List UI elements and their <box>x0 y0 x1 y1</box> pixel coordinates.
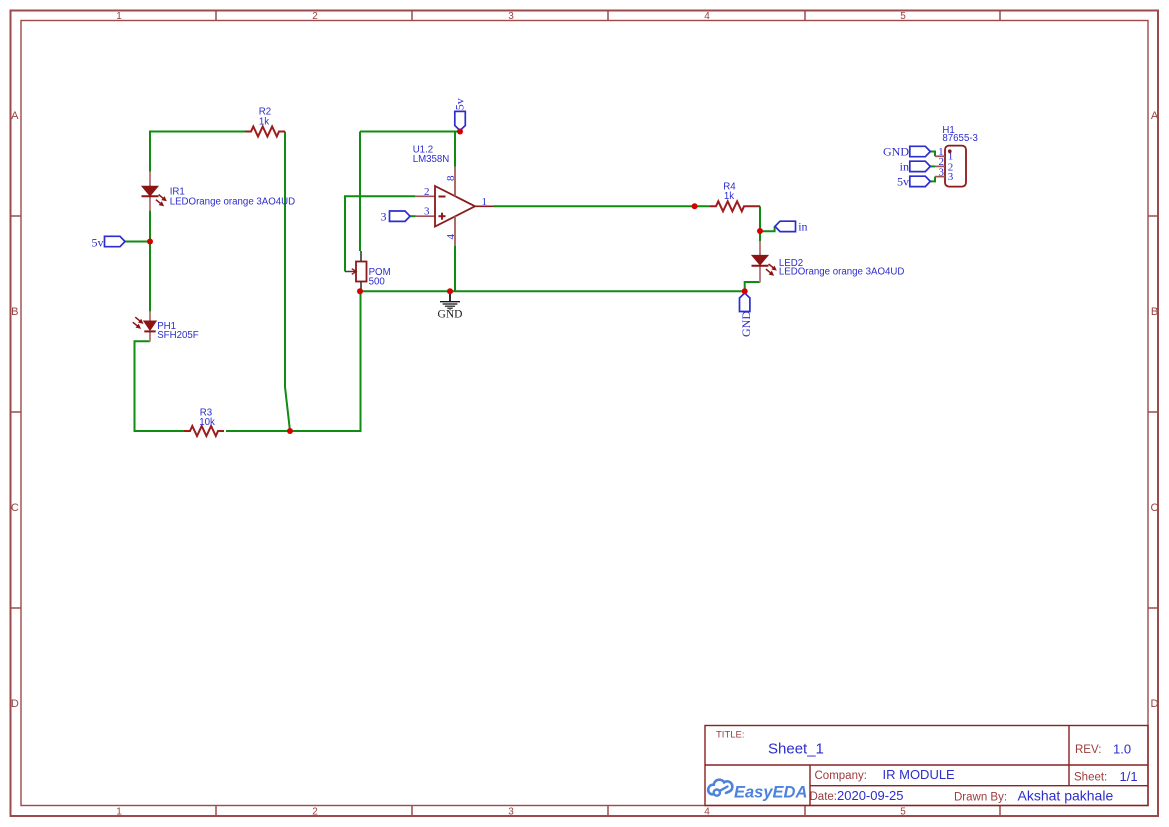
wire output to R4 <box>494 205 710 207</box>
node R3-R2 <box>287 428 293 434</box>
wire H1 pin1 <box>930 152 935 157</box>
svg-text:in: in <box>798 219 807 233</box>
svg-text:C: C <box>1151 502 1159 514</box>
svg-text:Sheet_1: Sheet_1 <box>768 741 824 758</box>
node in <box>757 228 763 234</box>
svg-text:LM358N: LM358N <box>413 154 450 165</box>
svg-text:IR MODULE: IR MODULE <box>883 767 956 782</box>
svg-text:87655-3: 87655-3 <box>942 133 978 144</box>
svg-text:3: 3 <box>508 11 514 22</box>
svg-text:1k: 1k <box>724 191 734 202</box>
svg-text:1.0: 1.0 <box>1113 742 1131 757</box>
svg-text:2: 2 <box>312 11 318 22</box>
wire 5v to pin8 <box>454 132 456 167</box>
svg-text:1: 1 <box>116 11 122 22</box>
wire 5v flag stub <box>125 241 150 243</box>
svg-text:B: B <box>11 306 18 318</box>
wire <box>125 132 935 432</box>
svg-text:GND: GND <box>438 309 463 321</box>
svg-text:4: 4 <box>704 11 710 22</box>
svg-text:3: 3 <box>948 171 954 183</box>
svg-text:GND: GND <box>739 311 753 337</box>
wire feedback pin2 to POM wiper <box>345 196 415 271</box>
svg-text:Akshat pakhale: Akshat pakhale <box>1018 788 1114 804</box>
svg-text:in: in <box>900 159 909 173</box>
svg-text:Drawn By:: Drawn By: <box>954 792 1007 804</box>
svg-text:1: 1 <box>116 807 122 818</box>
svg-text:A: A <box>11 110 19 122</box>
wire pin4 to bus <box>454 246 456 291</box>
node POM bottom <box>357 288 363 294</box>
svg-text:D: D <box>11 698 19 710</box>
svg-text:LEDOrange orange 3AO4UD: LEDOrange orange 3AO4UD <box>779 266 904 277</box>
wire down to POM top <box>359 132 361 252</box>
svg-text:10k: 10k <box>199 417 215 428</box>
title block grid <box>705 726 1148 806</box>
resistor R3 <box>184 408 224 437</box>
potentiometer POM <box>345 251 391 291</box>
svg-text:2: 2 <box>312 807 318 818</box>
svg-text:Date:: Date: <box>810 791 838 803</box>
net flag 5v top <box>453 98 467 130</box>
svg-text:3: 3 <box>939 166 945 178</box>
svg-text:2020-09-25: 2020-09-25 <box>837 788 904 803</box>
svg-text:REV:: REV: <box>1075 744 1101 756</box>
wire H1 pin2 <box>930 165 935 167</box>
svg-text:3: 3 <box>424 205 430 217</box>
svg-text:5: 5 <box>900 11 906 22</box>
svg-text:3: 3 <box>508 807 514 818</box>
EasyEDA logo <box>708 780 807 802</box>
svg-text:500: 500 <box>369 276 386 287</box>
wire 5v top horizontal <box>360 131 460 133</box>
svg-text:8: 8 <box>445 175 457 181</box>
ground GND symbol <box>440 291 460 310</box>
wire R3 right to POM bottom <box>226 291 361 431</box>
wire in flag stub <box>760 226 775 231</box>
resistor R2 <box>245 107 285 137</box>
svg-text:4: 4 <box>445 234 457 240</box>
svg-text:Company:: Company: <box>815 770 867 782</box>
node GND bus <box>447 288 453 294</box>
wire PH1 to R3 <box>135 341 185 431</box>
net flag in (right of R4) <box>775 219 808 233</box>
net flag in (H1 pin2) <box>900 159 931 173</box>
svg-text:EasyEDA: EasyEDA <box>734 784 807 802</box>
svg-text:LEDOrange orange 3AO4UD: LEDOrange orange 3AO4UD <box>170 197 295 208</box>
svg-text:2: 2 <box>424 186 430 198</box>
wire H1 pin3 <box>930 177 935 182</box>
resistor R4 <box>710 182 760 212</box>
svg-text:5: 5 <box>900 807 906 818</box>
svg-text:D: D <box>1151 698 1159 710</box>
svg-text:5v: 5v <box>453 98 467 110</box>
node 5v-IR1 <box>147 239 153 245</box>
net flag 5v left <box>92 236 126 250</box>
LED IR1 <box>142 172 296 211</box>
wire LED2 to GND flag <box>745 282 760 291</box>
wire R2 left to IR1 top corner <box>150 132 245 172</box>
svg-text:5v: 5v <box>92 236 104 250</box>
junction node dots <box>147 129 763 435</box>
svg-text:TITLE:: TITLE: <box>716 730 745 741</box>
net flag GND below LED2 <box>739 293 753 337</box>
net flag 5v (H1 pin3) <box>897 174 930 188</box>
wire R2 right drop to R3 junction <box>285 132 290 432</box>
svg-text:SFH205F: SFH205F <box>157 330 199 341</box>
wire IR1 to 5v node to PH1 <box>149 211 151 312</box>
wire net3 flag stub <box>410 215 416 217</box>
svg-text:5v: 5v <box>897 174 909 188</box>
svg-text:GND: GND <box>883 144 909 158</box>
svg-text:1/1: 1/1 <box>1120 769 1138 784</box>
svg-text:1: 1 <box>482 196 488 208</box>
svg-text:A: A <box>1151 110 1159 122</box>
node output <box>692 203 698 209</box>
node GND LED2 <box>742 288 748 294</box>
node 5v top <box>457 129 463 135</box>
svg-text:1k: 1k <box>259 116 269 127</box>
net flag GND (H1 pin1) <box>883 144 930 158</box>
svg-text:Sheet:: Sheet: <box>1074 772 1107 784</box>
svg-text:B: B <box>1151 306 1158 318</box>
LED LED2 <box>752 241 905 283</box>
svg-text:4: 4 <box>704 807 710 818</box>
wire ground bus <box>360 290 745 292</box>
connector H1 <box>935 125 978 187</box>
photodiode PH1 <box>131 311 199 341</box>
wire R4 right drop <box>759 206 761 241</box>
op-amp U1.2 <box>413 144 494 246</box>
svg-text:3: 3 <box>381 209 387 223</box>
svg-text:C: C <box>11 502 19 514</box>
net flag 3 <box>381 209 411 223</box>
